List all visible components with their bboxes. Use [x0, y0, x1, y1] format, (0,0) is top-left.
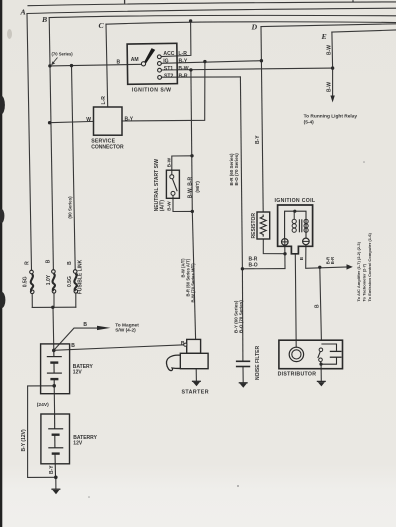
- node W tap: [48, 121, 51, 124]
- wire coil plus down: [284, 245, 286, 268]
- wire B-R vertical: [240, 77, 242, 269]
- svg-text:B: B: [83, 322, 87, 328]
- wire 90-series vertical: [72, 66, 76, 270]
- svg-text:B-W: B-W: [178, 66, 188, 72]
- svg-text:1.0Y: 1.0Y: [46, 274, 52, 285]
- distributor condenser: [321, 344, 337, 364]
- ignition switch ACC terminal: [157, 55, 161, 59]
- wire distributor ground stem: [320, 366, 322, 381]
- svg-text:To Emission Control Computer (: To Emission Control Computer (1-6): [367, 232, 372, 301]
- noise filter capacitor: [236, 361, 250, 366]
- svg-text:IGNITION COIL: IGNITION COIL: [275, 198, 316, 204]
- resistor zigzag: [260, 215, 266, 237]
- service connector box: [94, 107, 123, 135]
- svg-text:A: A: [20, 8, 26, 17]
- node B bus tap: [48, 64, 51, 67]
- wire battery1 to battery2: [53, 386, 55, 414]
- scan smudge 3: [0, 292, 5, 308]
- wire IG B-Y row: [161, 61, 261, 64]
- starter body box: [180, 353, 208, 368]
- svg-text:S/W (4-2): S/W (4-2): [115, 328, 136, 334]
- wire D vertical B-Y to resistor: [261, 27, 263, 212]
- svg-text:B-Y: B-Y: [255, 135, 261, 144]
- svg-text:B-Y: B-Y: [49, 465, 55, 474]
- ignition coil core: [299, 219, 301, 232]
- node D bus junction: [260, 59, 263, 62]
- speck 4: [88, 496, 90, 498]
- wire resistor to coil plus: [263, 239, 285, 254]
- wire battery series loop: [28, 386, 56, 478]
- wire fusible stubs B: [53, 293, 55, 307]
- wire W service connector to B: [50, 121, 94, 122]
- fusible link 3: [73, 270, 77, 293]
- node noise filter tap: [241, 267, 244, 270]
- wire A vertical: [27, 14, 32, 271]
- svg-text:D: D: [251, 23, 258, 32]
- svg-text:B: B: [45, 259, 51, 263]
- svg-text:B: B: [71, 343, 75, 349]
- node B-Y branch: [203, 60, 206, 63]
- svg-text:B-R: B-R: [179, 74, 188, 80]
- svg-text:(5-4): (5-4): [304, 119, 315, 125]
- wire neutral start bypass top: [172, 156, 192, 175]
- svg-text:C: C: [99, 21, 105, 30]
- node B-W branch: [189, 68, 192, 71]
- neutral start switch arm: [173, 179, 178, 191]
- svg-text:B-O: B-O: [249, 263, 258, 269]
- node battery2 negative: [54, 476, 58, 480]
- arrow 70 series callout: [53, 58, 58, 64]
- wire coil minus down: [306, 245, 348, 268]
- wire to magnet diagonal: [54, 328, 99, 350]
- svg-text:B-W: B-W: [167, 201, 173, 211]
- svg-text:L-R: L-R: [101, 96, 107, 105]
- node E bus junction: [331, 66, 334, 69]
- svg-text:(24V): (24V): [37, 402, 49, 408]
- svg-text:L-R: L-R: [178, 51, 187, 57]
- ground distributor: [317, 381, 326, 386]
- svg-text:(M/T): (M/T): [195, 181, 201, 193]
- wire fusible stubs 90: [75, 293, 77, 307]
- wire noise filter drop: [241, 269, 244, 360]
- wire B to AM: [50, 64, 142, 66]
- ignition coil primary winding: [292, 211, 296, 232]
- ignition switch ST1 terminal: [158, 68, 162, 72]
- arrowhead to running light relay: [330, 96, 334, 103]
- svg-text:B: B: [67, 261, 73, 265]
- wire B vertical: [49, 18, 53, 270]
- battery 1 box: [41, 344, 70, 394]
- svg-text:B-W: B-W: [327, 82, 333, 92]
- ground starter: [192, 381, 201, 386]
- node fusible link join: [51, 306, 54, 309]
- wire B-Y loop to service connector: [122, 62, 205, 121]
- scan smudge 4: [7, 29, 12, 39]
- svg-text:E: E: [321, 32, 327, 41]
- svg-text:DISTRIBUTOR: DISTRIBUTOR: [278, 371, 317, 377]
- wire fusible join: [32, 306, 76, 308]
- arrowhead to amplifier: [347, 264, 353, 269]
- svg-text:STARTER: STARTER: [182, 390, 209, 396]
- bus line B: [49, 15, 396, 17]
- svg-text:12V: 12V: [73, 370, 83, 376]
- svg-text:(90 Series): (90 Series): [67, 196, 72, 219]
- wire E arrow stem: [332, 68, 334, 96]
- svg-text:To Tachometer (2-7): To Tachometer (2-7): [362, 263, 367, 301]
- scan edge strip: [0, 0, 2, 527]
- speck 3: [352, 0, 354, 2]
- wire to battery plus: [52, 307, 55, 350]
- node battery positive: [52, 349, 56, 353]
- svg-text:B: B: [117, 60, 121, 66]
- fusible link 1: [30, 270, 34, 293]
- svg-text:ST2: ST2: [164, 74, 174, 80]
- bus line D: [261, 24, 396, 27]
- node neutral start top: [190, 154, 193, 157]
- wire E vertical: [331, 32, 334, 68]
- svg-text:To Running Light Relay: To Running Light Relay: [304, 113, 358, 119]
- battery 1 cells: [47, 351, 62, 386]
- speck 2: [363, 161, 365, 163]
- ignition coil plus terminal: [282, 239, 289, 246]
- svg-text:B-Y (12V): B-Y (12V): [21, 429, 27, 451]
- svg-text:B-R: B-R: [330, 257, 335, 264]
- distributor box: [279, 340, 343, 369]
- svg-text:0.5G: 0.5G: [67, 276, 73, 287]
- starter B terminal: [184, 343, 187, 346]
- wire battery2 to ground: [55, 477, 57, 489]
- starter hook: [166, 355, 180, 371]
- svg-text:NOISE FILTER: NOISE FILTER: [255, 346, 261, 380]
- wire B-R to coil plus: [242, 268, 285, 270]
- svg-text:B-W (70 Series M/T): B-W (70 Series M/T): [191, 263, 196, 303]
- ground noise filter: [239, 383, 248, 388]
- ignition coil inner junction: [293, 210, 296, 213]
- page index mark 1: [124, 0, 126, 3]
- svg-text:To Magnet: To Magnet: [115, 323, 139, 329]
- starter solenoid box: [187, 339, 201, 353]
- wire fusible stubs A: [31, 294, 33, 308]
- svg-text:B-W, B-R: B-W, B-R: [187, 177, 193, 199]
- svg-text:FUSIBLE LINK: FUSIBLE LINK: [77, 259, 83, 294]
- ignition switch box: [127, 43, 177, 84]
- svg-text:RESISTOR: RESISTOR: [251, 213, 257, 239]
- svg-text:B-Y: B-Y: [125, 117, 134, 123]
- ignition coil secondary winding: [304, 219, 308, 232]
- svg-text:B-W: B-W: [167, 157, 173, 167]
- distributor points: [319, 348, 323, 362]
- svg-text:B-Y: B-Y: [179, 59, 188, 65]
- bus line E: [332, 30, 396, 32]
- wire battery to starter: [54, 345, 184, 351]
- node coil minus: [318, 266, 321, 269]
- speck 1: [237, 485, 239, 487]
- wire C vertical to service connector: [106, 24, 108, 107]
- svg-text:B: B: [315, 304, 321, 308]
- node neutral start bottom: [191, 210, 194, 213]
- scan smudge 2: [0, 209, 4, 223]
- svg-text:W: W: [86, 117, 91, 123]
- ignition switch AM terminal: [141, 62, 145, 66]
- svg-text:IG: IG: [163, 59, 168, 65]
- svg-text:B-W: B-W: [327, 45, 333, 55]
- bus line A: [27, 8, 396, 13]
- neutral start switch contacts: [170, 175, 175, 196]
- node coil plus: [283, 252, 286, 255]
- scan smudge 1: [0, 96, 5, 114]
- node battery1 negative: [52, 384, 56, 388]
- neutral start switch box: [166, 170, 179, 198]
- svg-text:R: R: [25, 261, 31, 265]
- svg-text:(A/T): (A/T): [159, 200, 165, 212]
- wire noise filter ground stem: [242, 367, 244, 383]
- svg-text:B: B: [181, 341, 185, 347]
- distributor rotor: [289, 347, 303, 361]
- battery 2 box: [41, 414, 70, 464]
- svg-text:12V: 12V: [73, 441, 83, 447]
- svg-text:ST1: ST1: [164, 66, 174, 72]
- ignition switch lever: [144, 48, 155, 63]
- svg-text:B-O (70 Series): B-O (70 Series): [239, 300, 244, 333]
- svg-text:0.5G: 0.5G: [22, 276, 28, 287]
- arrowhead to magnet: [97, 326, 111, 330]
- wire starter ground stem: [195, 369, 197, 382]
- wire ST1 B-W row: [161, 68, 332, 70]
- wire ACC L-R up to C: [161, 21, 191, 57]
- svg-text:AM: AM: [131, 57, 139, 63]
- ignition switch IG terminal: [158, 62, 162, 66]
- ground battery: [51, 489, 60, 494]
- ignition coil box: [278, 205, 313, 254]
- wire B-W vertical to starter: [192, 211, 195, 339]
- bus line 1 (top): [28, 2, 396, 6]
- battery 2 cells: [48, 414, 63, 477]
- svg-text:To A/C Amplifier (1-7) (2-2) (: To A/C Amplifier (1-7) (2-2) (2-3): [356, 241, 361, 301]
- svg-text:IGNITION S/W: IGNITION S/W: [132, 88, 172, 94]
- wire high tension lead: [294, 254, 297, 347]
- ignition coil inner frame: [285, 211, 306, 238]
- node 90-series tap: [70, 64, 73, 67]
- svg-text:CONNECTOR: CONNECTOR: [91, 144, 124, 150]
- node C bus tap: [189, 19, 192, 22]
- wire B-W vertical upper: [191, 70, 192, 212]
- ignition coil minus terminal: [303, 238, 310, 245]
- ignition switch ST2 terminal: [158, 76, 162, 80]
- wire neutral start bypass bottom: [173, 195, 192, 211]
- svg-text:B: B: [41, 15, 47, 24]
- svg-text:(70 Series): (70 Series): [52, 52, 74, 57]
- wire ST2 B-R row: [162, 76, 241, 78]
- fusible link 2: [52, 270, 56, 293]
- svg-text:B-O (70 Series): B-O (70 Series): [234, 153, 239, 186]
- wire distributor feed: [320, 267, 322, 340]
- bus line C: [106, 22, 396, 24]
- resistor R box: [257, 212, 270, 239]
- svg-text:ACC: ACC: [163, 51, 174, 57]
